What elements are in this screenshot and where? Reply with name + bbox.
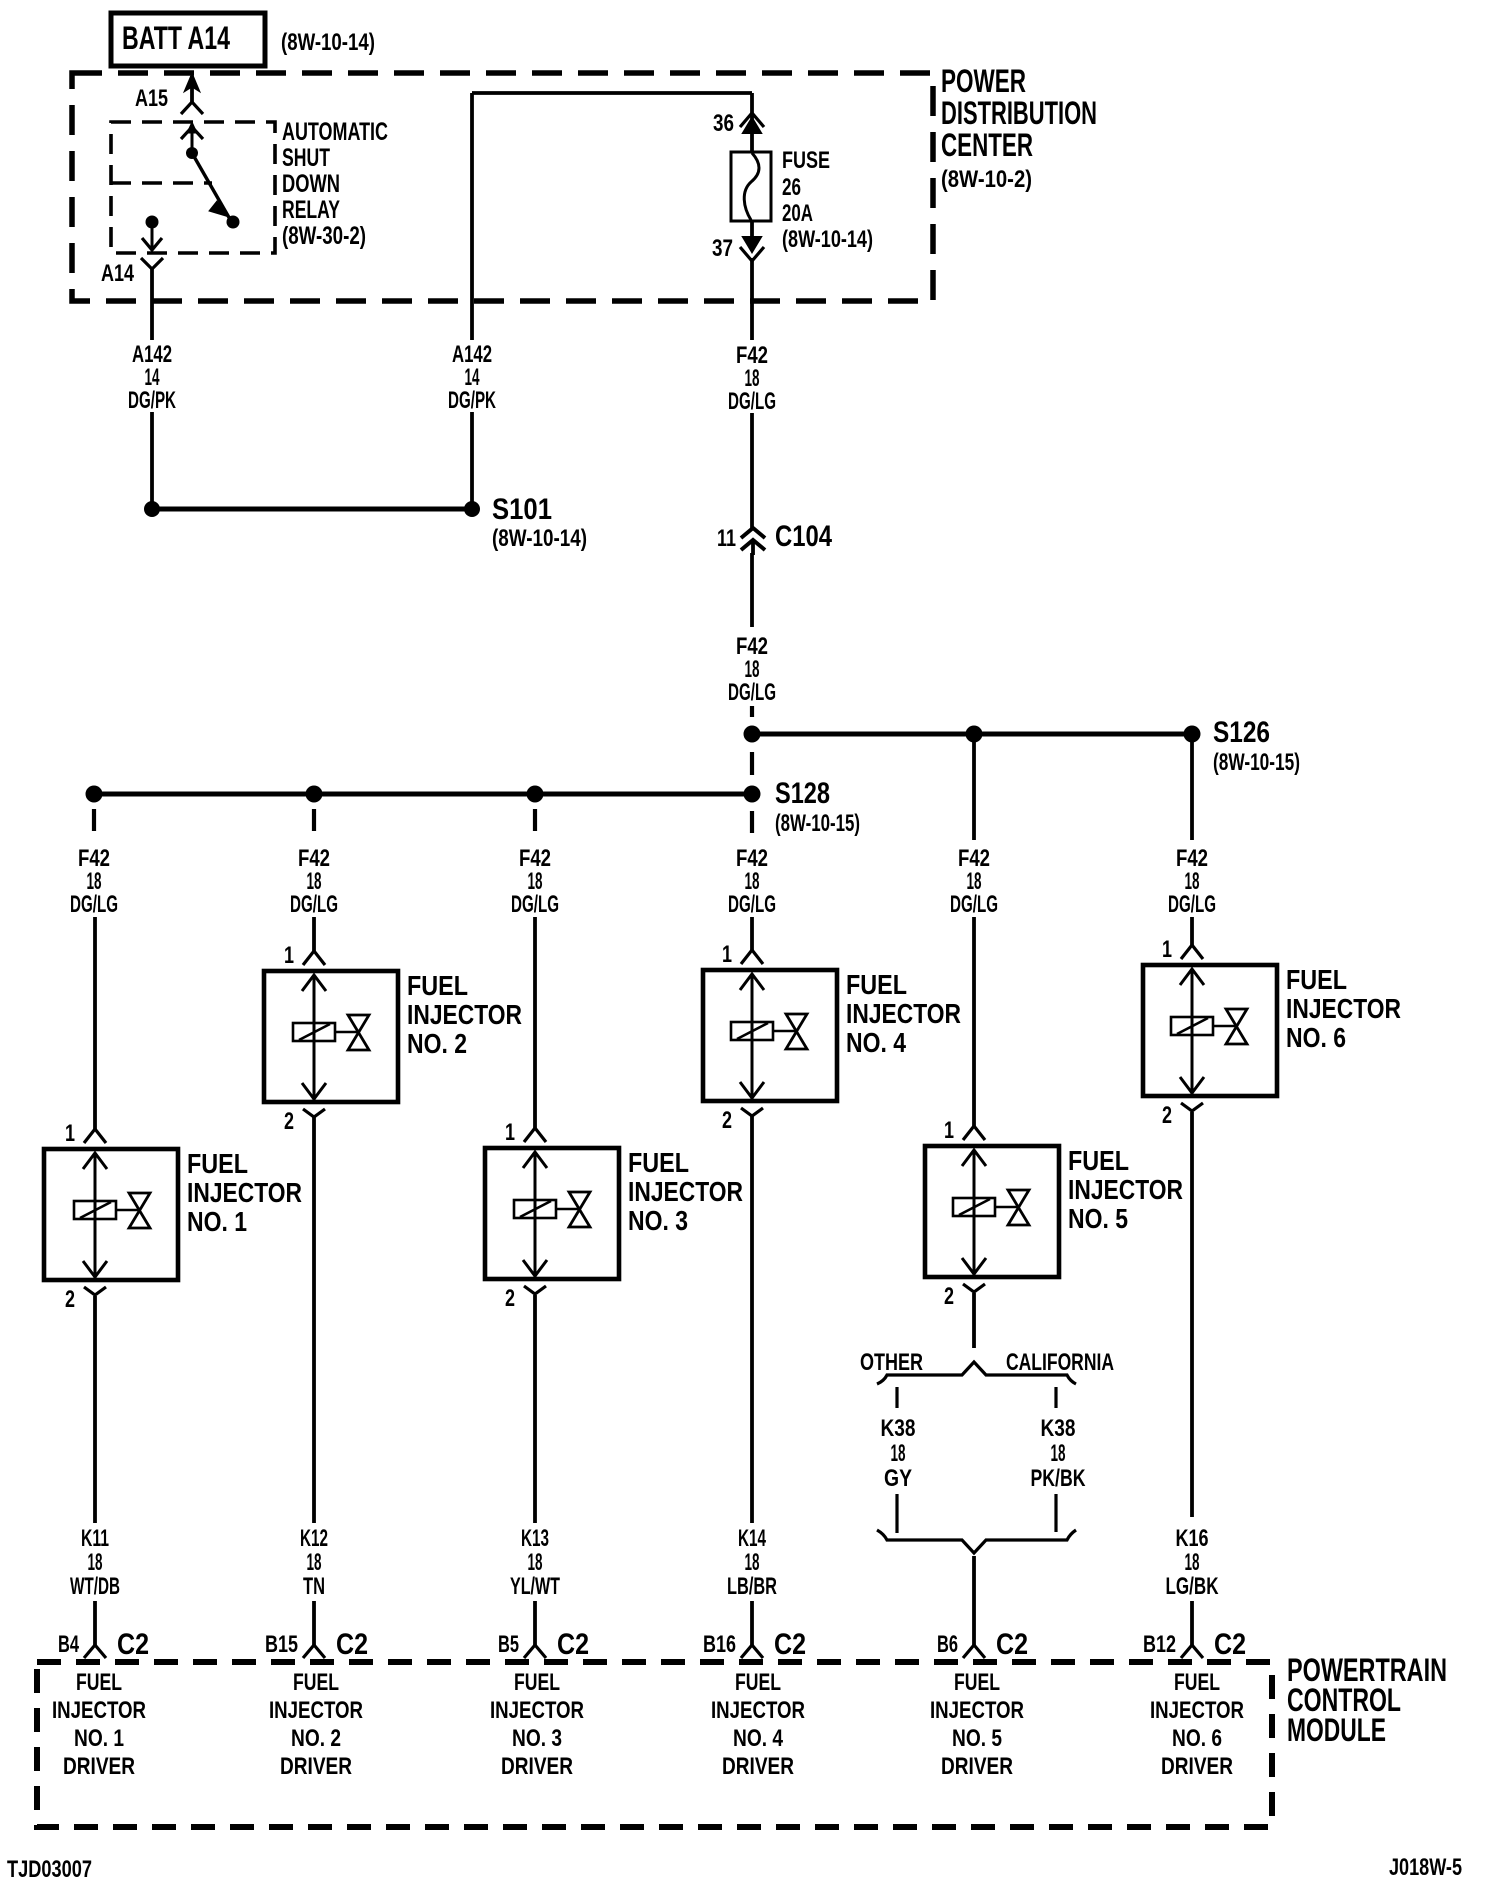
pin label B15 xyxy=(265,1631,298,1658)
svg-text:DRIVER: DRIVER xyxy=(941,1753,1013,1780)
injector 1 internal wire and arrows xyxy=(83,1153,107,1278)
pin label B6 xyxy=(937,1631,958,1658)
wire label K38 18 GY xyxy=(881,1415,916,1492)
injector 3 valve symbol xyxy=(569,1192,590,1227)
wire A142 left down to splice S101 xyxy=(150,412,154,505)
svg-text:INJECTOR: INJECTOR xyxy=(269,1697,363,1724)
svg-text:S128: S128 xyxy=(775,777,830,810)
svg-text:37: 37 xyxy=(712,235,733,262)
svg-text:RELAY: RELAY xyxy=(282,196,340,224)
svg-text:B15: B15 xyxy=(265,1631,298,1658)
injector 2 valve symbol xyxy=(348,1015,369,1050)
svg-text:FUEL: FUEL xyxy=(293,1669,339,1696)
connector C2 pin B5 (Y symbol) xyxy=(524,1645,546,1658)
wire K16 from injector 6 to PCM xyxy=(1190,1112,1194,1517)
svg-text:18: 18 xyxy=(891,1440,906,1467)
svg-text:1: 1 xyxy=(65,1120,75,1147)
svg-text:DISTRIBUTION: DISTRIBUTION xyxy=(941,95,1097,131)
wire from top bus down (A142 second) xyxy=(470,93,474,340)
svg-text:2: 2 xyxy=(722,1107,732,1134)
fuse 26 20A xyxy=(731,152,771,221)
svg-text:NO. 4: NO. 4 xyxy=(733,1725,784,1752)
relay lower contact and pin A14 arrow xyxy=(142,216,162,251)
svg-text:INJECTOR: INJECTOR xyxy=(187,1177,302,1208)
injector 5 internal wire and arrows xyxy=(962,1150,986,1275)
pin 2 connector of injector 2 xyxy=(303,1109,325,1117)
wire into fuel injector no. 6 pin 1 xyxy=(1190,917,1194,945)
wire from S126 down column 6 xyxy=(1190,741,1194,840)
wire stub into PCM pin B6 xyxy=(973,1640,975,1645)
svg-text:INJECTOR: INJECTOR xyxy=(1286,993,1401,1024)
label AUTOMATIC SHUT DOWN RELAY (8W-30-2) xyxy=(282,118,388,250)
svg-text:FUEL: FUEL xyxy=(954,1669,1000,1696)
svg-text:1: 1 xyxy=(284,942,294,969)
svg-text:1: 1 xyxy=(722,941,732,968)
dashed wire stub below S128 at x=94 xyxy=(92,809,96,831)
wire label F42 18 DG/LG column x=314 xyxy=(290,845,338,918)
svg-text:DG/LG: DG/LG xyxy=(950,891,998,918)
injector 4 solenoid coil xyxy=(731,1022,796,1040)
svg-text:DRIVER: DRIVER xyxy=(63,1753,135,1780)
svg-text:DG/LG: DG/LG xyxy=(728,388,776,415)
wire label K13 18 YL/WT xyxy=(510,1525,560,1600)
pin label 11 xyxy=(717,525,736,552)
svg-text:INJECTOR: INJECTOR xyxy=(490,1697,584,1724)
pin label 2 of injector 6 xyxy=(1162,1102,1172,1129)
wire into fuel injector no. 3 pin 1 xyxy=(533,917,537,1128)
pin label 1 of injector 3 xyxy=(505,1119,515,1146)
pin 2 connector of injector 3 xyxy=(524,1286,546,1294)
svg-text:LB/BR: LB/BR xyxy=(727,1573,777,1600)
svg-text:18: 18 xyxy=(1185,1549,1200,1576)
dashed link between S126 and S128 xyxy=(750,752,754,775)
wire F42 below C104 xyxy=(750,553,754,627)
label C2 at B12 xyxy=(1214,1628,1246,1661)
wire into fuel injector no. 4 pin 1 xyxy=(750,917,754,950)
wire stub below brace left xyxy=(895,1387,898,1408)
reference label (8W-10-14) xyxy=(281,29,375,56)
svg-text:(8W-30-2): (8W-30-2) xyxy=(282,222,366,250)
wire label A142 14 DG/PK (second) xyxy=(448,341,496,414)
svg-text:FUEL: FUEL xyxy=(846,969,907,1000)
svg-text:FUEL: FUEL xyxy=(514,1669,560,1696)
svg-text:DRIVER: DRIVER xyxy=(722,1753,794,1780)
pin 2 connector of injector 5 xyxy=(963,1284,985,1292)
wire from S126 down column 5 xyxy=(972,741,976,840)
wire label K11 18 WT/DB xyxy=(70,1525,120,1600)
connector pin A15 (arrow into PDC) xyxy=(181,73,203,114)
label FUEL INJECTOR NO. 3 DRIVER xyxy=(490,1669,584,1780)
pin label 2 of injector 2 xyxy=(284,1108,294,1135)
battery feed box BATT A14 xyxy=(111,13,265,66)
wire from A142 tap to fuse feed (horizontal) xyxy=(472,91,752,95)
wire from brace merge to PCM pin B6 xyxy=(972,1556,976,1645)
svg-text:C2: C2 xyxy=(774,1628,806,1661)
svg-text:2: 2 xyxy=(1162,1102,1172,1129)
pin label 2 of injector 1 xyxy=(65,1286,75,1313)
label C2 at B5 xyxy=(557,1628,589,1661)
label S101 (8W-10-14) xyxy=(492,493,587,552)
drawing number TJD03007 xyxy=(7,1856,92,1883)
pin label 1 of injector 2 xyxy=(284,942,294,969)
svg-text:2: 2 xyxy=(944,1283,954,1310)
label OTHER xyxy=(860,1349,923,1376)
svg-text:2: 2 xyxy=(284,1108,294,1135)
svg-text:NO. 2: NO. 2 xyxy=(407,1028,467,1059)
svg-text:INJECTOR: INJECTOR xyxy=(407,999,522,1030)
connector pin 36 (double chevron up) xyxy=(740,113,764,133)
svg-text:TN: TN xyxy=(303,1573,325,1600)
svg-text:(8W-10-14): (8W-10-14) xyxy=(281,29,375,56)
relay internal dashed divider xyxy=(111,181,212,185)
svg-text:B5: B5 xyxy=(498,1631,519,1658)
svg-text:36: 36 xyxy=(713,110,734,137)
svg-text:NO. 4: NO. 4 xyxy=(846,1027,906,1058)
svg-text:C2: C2 xyxy=(996,1628,1028,1661)
wire label F42 18 DG/LG column x=752 xyxy=(728,845,776,918)
svg-text:18: 18 xyxy=(745,1549,760,1576)
svg-text:NO. 2: NO. 2 xyxy=(291,1725,341,1752)
label C2 at B15 xyxy=(336,1628,368,1661)
injector 6 valve symbol xyxy=(1226,1009,1247,1044)
svg-text:DG/LG: DG/LG xyxy=(511,891,559,918)
fuel injector no. 6 box xyxy=(1143,965,1277,1096)
svg-text:A15: A15 xyxy=(135,85,168,112)
svg-text:C2: C2 xyxy=(117,1628,149,1661)
svg-text:K38: K38 xyxy=(1041,1415,1076,1442)
svg-text:BATT A14: BATT A14 xyxy=(122,20,230,56)
svg-text:INJECTOR: INJECTOR xyxy=(52,1697,146,1724)
injector 1 solenoid coil xyxy=(74,1201,139,1219)
label FUEL INJECTOR NO. 2 DRIVER xyxy=(269,1669,363,1780)
svg-text:NO. 6: NO. 6 xyxy=(1286,1022,1346,1053)
svg-text:K16: K16 xyxy=(1176,1525,1209,1552)
wire F42 leaving PDC xyxy=(750,258,754,340)
wire K13 from injector 3 to PCM xyxy=(533,1295,537,1523)
svg-text:B12: B12 xyxy=(1143,1631,1176,1658)
powertrain control module dashed box xyxy=(37,1662,1272,1827)
pin 2 connector of injector 1 xyxy=(84,1287,106,1295)
fuel injector no. 4 box xyxy=(703,970,837,1101)
svg-text:18: 18 xyxy=(307,1549,322,1576)
svg-text:FUEL: FUEL xyxy=(1068,1145,1129,1176)
wire stub into PCM pin B15 xyxy=(312,1601,316,1645)
pin 1 connector of injector 5 xyxy=(963,1126,985,1140)
wire label F42 18 DG/LG column x=535 xyxy=(511,845,559,918)
pin label B4 xyxy=(58,1631,79,1658)
wire into fuel injector no. 1 pin 1 xyxy=(93,917,97,1129)
wire into fuse pin 36 xyxy=(750,93,754,152)
wire stub into PCM pin B12 xyxy=(1190,1601,1194,1645)
wire label F42 18 DG/LG column x=1192 xyxy=(1168,845,1216,918)
pin label 1 of injector 1 xyxy=(65,1120,75,1147)
svg-text:C2: C2 xyxy=(1214,1628,1246,1661)
wire A142 second down to splice S101 xyxy=(470,412,474,505)
svg-text:FUEL: FUEL xyxy=(1174,1669,1220,1696)
label C2 at B4 xyxy=(117,1628,149,1661)
injector 4 internal wire and arrows xyxy=(740,974,764,1099)
svg-text:NO. 5: NO. 5 xyxy=(952,1725,1002,1752)
label FUEL INJECTOR NO. 6 xyxy=(1286,964,1401,1053)
svg-text:(8W-10-15): (8W-10-15) xyxy=(775,810,860,837)
connector A14 (Y below relay) xyxy=(141,258,163,340)
pin label 1 of injector 6 xyxy=(1162,936,1172,963)
svg-text:CALIFORNIA: CALIFORNIA xyxy=(1006,1349,1114,1376)
svg-text:K13: K13 xyxy=(521,1525,549,1552)
wire into fuel injector no. 5 pin 1 xyxy=(972,917,976,1126)
in-line connector C104 pin 11 (double chevron) xyxy=(741,528,765,555)
injector 3 solenoid coil xyxy=(514,1200,579,1218)
svg-text:NO. 6: NO. 6 xyxy=(1172,1725,1222,1752)
label FUEL INJECTOR NO. 6 DRIVER xyxy=(1150,1669,1244,1780)
svg-text:WT/DB: WT/DB xyxy=(70,1573,120,1600)
label FUEL INJECTOR NO. 4 xyxy=(846,969,961,1058)
label C104 xyxy=(775,520,832,553)
svg-text:NO. 1: NO. 1 xyxy=(74,1725,124,1752)
svg-text:18: 18 xyxy=(528,1549,543,1576)
injector 5 valve symbol xyxy=(1008,1190,1029,1225)
pin label 2 of injector 4 xyxy=(722,1107,732,1134)
svg-text:A14: A14 xyxy=(101,260,134,287)
svg-text:C2: C2 xyxy=(336,1628,368,1661)
label S126 (8W-10-15) xyxy=(1213,716,1300,776)
wire label F42 18 DG/LG column x=974 xyxy=(950,845,998,918)
connector C2 pin B12 (Y symbol) xyxy=(1181,1645,1203,1658)
svg-text:NO. 1: NO. 1 xyxy=(187,1206,247,1237)
svg-text:FUEL: FUEL xyxy=(76,1669,122,1696)
connector C2 pin B16 (Y symbol) xyxy=(741,1645,763,1658)
pin label A14 xyxy=(101,260,134,287)
svg-text:DG/LG: DG/LG xyxy=(728,679,776,706)
svg-text:DRIVER: DRIVER xyxy=(280,1753,352,1780)
pin label 1 of injector 4 xyxy=(722,941,732,968)
wire K12 from injector 2 to PCM xyxy=(312,1117,316,1523)
svg-text:(8W-10-15): (8W-10-15) xyxy=(1213,749,1300,776)
svg-text:1: 1 xyxy=(944,1117,954,1144)
label FUSE 26 20A (8W-10-14) xyxy=(782,147,873,253)
pin 1 connector of injector 2 xyxy=(303,951,325,965)
svg-text:INJECTOR: INJECTOR xyxy=(1068,1174,1183,1205)
svg-text:PK/BK: PK/BK xyxy=(1031,1465,1086,1492)
pin label 2 of injector 5 xyxy=(944,1283,954,1310)
svg-text:DG/LG: DG/LG xyxy=(1168,891,1216,918)
svg-text:K14: K14 xyxy=(738,1525,766,1552)
injector 2 solenoid coil xyxy=(293,1023,358,1041)
injector 5 solenoid coil xyxy=(953,1198,1018,1216)
svg-text:DOWN: DOWN xyxy=(282,170,340,198)
svg-text:DG/LG: DG/LG xyxy=(70,891,118,918)
sheet number J018W-5 xyxy=(1389,1854,1462,1881)
svg-text:DRIVER: DRIVER xyxy=(1161,1753,1233,1780)
svg-text:DG/PK: DG/PK xyxy=(448,387,496,414)
connector C2 pin B6 (Y symbol) xyxy=(963,1645,985,1658)
pin 1 connector of injector 4 xyxy=(741,950,763,964)
wire stub dashed to splice S126 xyxy=(750,706,754,717)
svg-text:FUEL: FUEL xyxy=(1286,964,1347,995)
svg-text:NO. 3: NO. 3 xyxy=(512,1725,562,1752)
svg-text:1: 1 xyxy=(505,1119,515,1146)
svg-text:DG/LG: DG/LG xyxy=(290,891,338,918)
power distribution center dashed box xyxy=(72,73,933,301)
svg-text:20A: 20A xyxy=(782,200,813,227)
injector 6 internal wire and arrows xyxy=(1180,969,1204,1094)
label FUEL INJECTOR NO. 5 xyxy=(1068,1145,1183,1234)
wire K14 from injector 4 to PCM xyxy=(750,1116,754,1523)
fuel injector no. 2 box xyxy=(264,971,398,1102)
fuel injector no. 3 box xyxy=(485,1148,619,1279)
svg-text:18: 18 xyxy=(88,1549,103,1576)
label S128 (8W-10-15) xyxy=(775,777,860,837)
svg-text:J018W-5: J018W-5 xyxy=(1389,1854,1462,1881)
injector 6 solenoid coil xyxy=(1171,1017,1236,1035)
pin 2 connector of injector 4 xyxy=(741,1108,763,1116)
wire stub below brace right xyxy=(1054,1387,1057,1408)
svg-text:(8W-10-14): (8W-10-14) xyxy=(492,525,587,552)
label C2 at B6 xyxy=(996,1628,1028,1661)
svg-text:POWER: POWER xyxy=(941,63,1026,99)
pin label B16 xyxy=(703,1631,736,1658)
pin label 37 xyxy=(712,235,733,262)
injector 1 valve symbol xyxy=(129,1193,150,1228)
wire label F42 18 DG/LG column x=94 xyxy=(70,845,118,918)
svg-text:S101: S101 xyxy=(492,493,552,526)
injector 2 internal wire and arrows xyxy=(302,975,326,1100)
svg-text:DG/PK: DG/PK xyxy=(128,387,176,414)
svg-text:2: 2 xyxy=(65,1286,75,1313)
svg-text:AUTOMATIC: AUTOMATIC xyxy=(282,118,388,146)
svg-text:FUEL: FUEL xyxy=(187,1148,248,1179)
injector 4 valve symbol xyxy=(786,1014,807,1049)
svg-text:B16: B16 xyxy=(703,1631,736,1658)
wire into fuel injector no. 2 pin 1 xyxy=(312,917,316,951)
svg-text:11: 11 xyxy=(717,525,736,552)
svg-text:NO. 5: NO. 5 xyxy=(1068,1203,1128,1234)
pin 2 connector of injector 6 xyxy=(1181,1103,1203,1111)
pin label B5 xyxy=(498,1631,519,1658)
svg-text:YL/WT: YL/WT xyxy=(510,1573,560,1600)
wire stub into PCM pin B4 xyxy=(93,1601,97,1645)
wire label K12 18 TN xyxy=(300,1525,328,1600)
wire label K38 18 PK/BK xyxy=(1031,1415,1086,1492)
svg-text:FUEL: FUEL xyxy=(628,1147,689,1178)
svg-text:TJD03007: TJD03007 xyxy=(7,1856,92,1883)
svg-text:2: 2 xyxy=(505,1285,515,1312)
wire F42 down to connector C104 xyxy=(750,413,754,528)
pin label 2 of injector 3 xyxy=(505,1285,515,1312)
svg-text:INJECTOR: INJECTOR xyxy=(846,998,961,1029)
label CALIFORNIA xyxy=(1006,1349,1114,1376)
splice S101 bus xyxy=(144,501,480,517)
injector 3 internal wire and arrows xyxy=(523,1152,547,1277)
svg-text:K38: K38 xyxy=(881,1415,916,1442)
svg-text:FUEL: FUEL xyxy=(407,970,468,1001)
wire stub into PCM pin B5 xyxy=(533,1601,537,1645)
automatic shut down relay dashed box xyxy=(111,122,275,253)
svg-text:SHUT: SHUT xyxy=(282,144,330,172)
connector C2 pin B15 (Y symbol) xyxy=(303,1645,325,1658)
svg-text:K11: K11 xyxy=(81,1525,109,1552)
label C2 at B16 xyxy=(774,1628,806,1661)
svg-text:C104: C104 xyxy=(775,520,832,553)
svg-text:CENTER: CENTER xyxy=(941,127,1033,163)
pin label B12 xyxy=(1143,1631,1176,1658)
svg-text:K12: K12 xyxy=(300,1525,328,1552)
wire K11 from injector 1 to PCM xyxy=(93,1296,97,1523)
svg-text:OTHER: OTHER xyxy=(860,1349,923,1376)
wire below K38 PK/BK xyxy=(1054,1494,1057,1532)
label FUEL INJECTOR NO. 1 xyxy=(187,1148,302,1237)
svg-text:(8W-10-14): (8W-10-14) xyxy=(782,226,873,253)
connector pin 37 (double chevron down) xyxy=(740,221,764,261)
wire label A142 14 DG/PK (left) xyxy=(128,341,176,414)
wire label F42 18 DG/LG (below PDC) xyxy=(728,342,776,415)
wire label K14 18 LB/BR xyxy=(727,1525,777,1600)
svg-text:DRIVER: DRIVER xyxy=(501,1753,573,1780)
dashed wire stub below S128 at x=535 xyxy=(533,809,537,831)
wire label K16 18 LG/BK xyxy=(1166,1525,1219,1600)
label POWERTRAIN CONTROL MODULE xyxy=(1287,1652,1447,1748)
svg-text:26: 26 xyxy=(782,174,801,201)
label FUEL INJECTOR NO. 1 DRIVER xyxy=(52,1669,146,1780)
svg-text:INJECTOR: INJECTOR xyxy=(711,1697,805,1724)
relay switch contact arm xyxy=(181,122,240,229)
svg-text:18: 18 xyxy=(1051,1440,1066,1467)
pin 1 connector of injector 6 xyxy=(1181,945,1203,959)
svg-text:MODULE: MODULE xyxy=(1287,1712,1386,1748)
label FUEL INJECTOR NO. 2 xyxy=(407,970,522,1059)
splice S126 bus xyxy=(744,726,1201,743)
dashed wire stub below S128 at x=314 xyxy=(312,809,316,831)
label FUEL INJECTOR NO. 4 DRIVER xyxy=(711,1669,805,1780)
svg-text:NO. 3: NO. 3 xyxy=(628,1205,688,1236)
fuel injector no. 5 box xyxy=(925,1146,1059,1277)
svg-text:GY: GY xyxy=(884,1465,912,1492)
svg-text:DG/LG: DG/LG xyxy=(728,891,776,918)
dashed wire stub below S128 centre xyxy=(750,811,754,833)
svg-text:S126: S126 xyxy=(1213,716,1270,749)
wire below K38 GY xyxy=(895,1494,898,1533)
svg-text:INJECTOR: INJECTOR xyxy=(930,1697,1024,1724)
svg-text:INJECTOR: INJECTOR xyxy=(1150,1697,1244,1724)
wire stub into PCM pin B16 xyxy=(750,1601,754,1645)
pin label A15 xyxy=(135,85,168,112)
connector C2 pin B4 (Y symbol) xyxy=(84,1645,106,1658)
brace merge (bottom) xyxy=(877,1530,1076,1553)
fuel injector no. 1 box xyxy=(44,1149,178,1280)
svg-text:LG/BK: LG/BK xyxy=(1166,1573,1219,1600)
pin label 1 of injector 5 xyxy=(944,1117,954,1144)
wire label F42 18 DG/LG (above splices) xyxy=(728,633,776,706)
pin label 36 xyxy=(713,110,734,137)
svg-text:INJECTOR: INJECTOR xyxy=(628,1176,743,1207)
svg-text:FUEL: FUEL xyxy=(735,1669,781,1696)
svg-text:1: 1 xyxy=(1162,936,1172,963)
label FUEL INJECTOR NO. 5 DRIVER xyxy=(930,1669,1024,1780)
pin 1 connector of injector 1 xyxy=(84,1129,106,1143)
splice S128 bus xyxy=(86,786,761,803)
svg-text:B6: B6 xyxy=(937,1631,958,1658)
svg-text:B4: B4 xyxy=(58,1631,79,1658)
pin 1 connector of injector 3 xyxy=(524,1128,546,1142)
brace OTHER/CALIFORNIA split (top) xyxy=(877,1362,1076,1384)
svg-text:FUSE: FUSE xyxy=(782,147,830,174)
label FUEL INJECTOR NO. 3 xyxy=(628,1147,743,1236)
svg-text:(8W-10-2): (8W-10-2) xyxy=(941,166,1032,193)
svg-text:C2: C2 xyxy=(557,1628,589,1661)
wire from injector 5 pin 2 to brace xyxy=(972,1293,976,1348)
label POWER DISTRIBUTION CENTER (8W-10-2) xyxy=(941,63,1097,193)
